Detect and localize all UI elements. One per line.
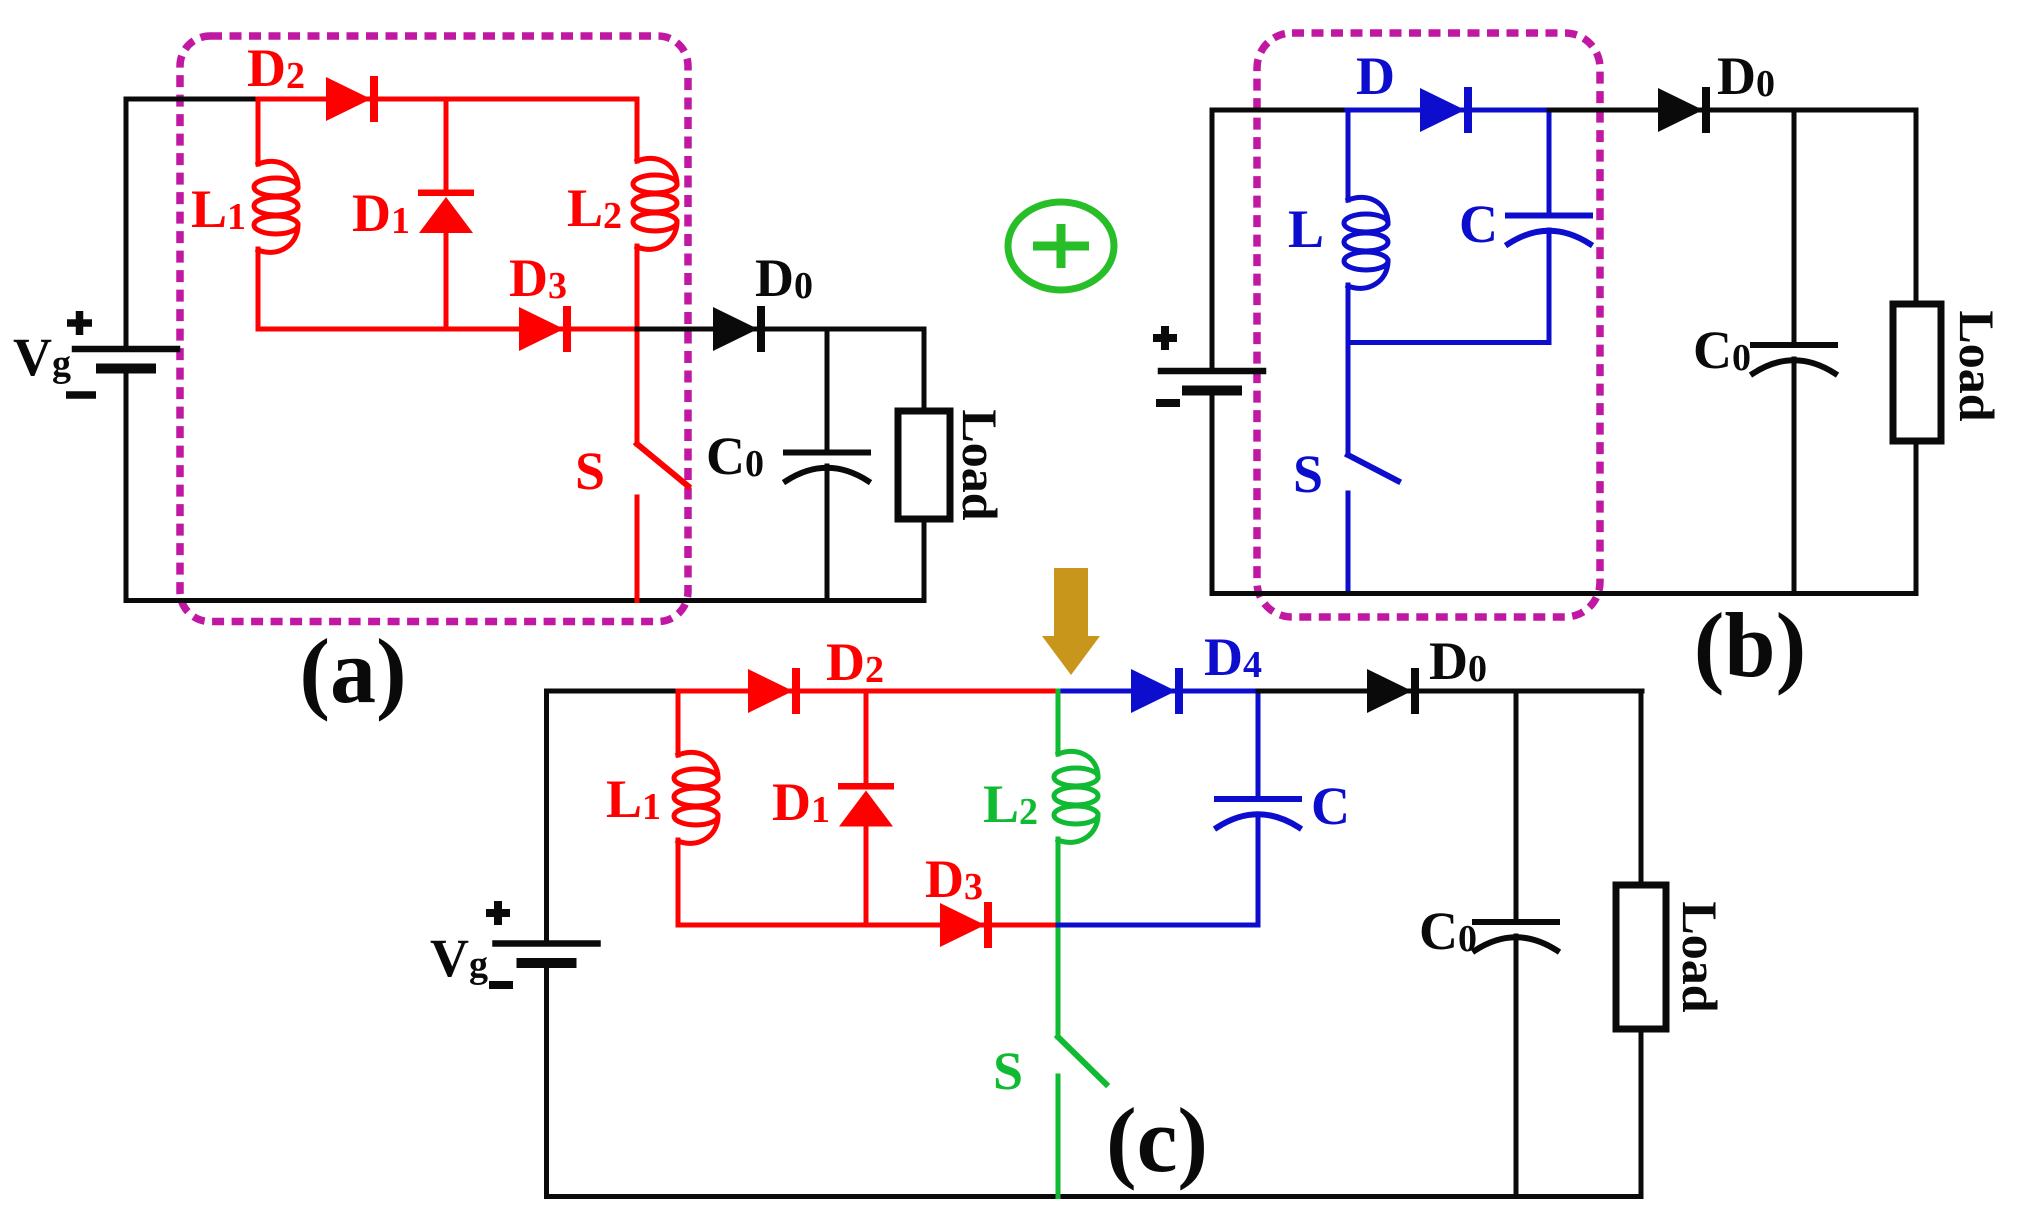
wire output black (a)	[637, 327, 924, 332]
wire lower red (c)	[678, 923, 1058, 928]
wire L1 bottom stub (a)	[256, 249, 261, 329]
wire output black (c)	[1258, 689, 1642, 694]
svg-text:D3: D3	[925, 849, 983, 909]
svg-text:C: C	[1459, 194, 1498, 254]
wire C0 top (a)	[825, 329, 830, 452]
wire top blue (c)	[1058, 689, 1258, 694]
wire L1 top stub (a)	[256, 99, 261, 164]
switch S lower (a)	[635, 497, 640, 601]
svg-text:D4: D4	[1204, 627, 1262, 687]
svg-text:(a): (a)	[299, 620, 406, 722]
wire D1 bottom (c)	[864, 826, 869, 925]
capacitor C0 (a)	[786, 453, 868, 482]
battery Vg (a)	[75, 349, 177, 369]
wire Load bottom (b)	[1914, 441, 1919, 594]
diode D1 (a)	[418, 190, 474, 234]
switch S blade (b)	[1348, 455, 1398, 481]
switch S blade (c)	[1058, 1037, 1106, 1084]
diode D0 (a)	[713, 306, 765, 352]
wire L2 top stub (c)	[1056, 691, 1061, 754]
wire C0 top (c)	[1514, 691, 1519, 922]
svg-text:Load: Load	[952, 409, 1008, 520]
wire Load bottom (c)	[1639, 1029, 1644, 1197]
switch S upper (a)	[635, 329, 640, 444]
svg-text:S: S	[1293, 444, 1323, 504]
wire top blue (b)	[1347, 108, 1549, 113]
svg-text:L1: L1	[606, 769, 661, 829]
svg-text:D2: D2	[826, 632, 884, 692]
switch S upper (b)	[1346, 343, 1351, 456]
inductor L1 (a)	[254, 161, 298, 252]
wire top red (c)	[678, 689, 1060, 694]
wire L2 bottom stub (a)	[635, 246, 640, 329]
wire left top (b)	[1212, 110, 1347, 368]
svg-text:Load: Load	[1672, 901, 1728, 1012]
diode D3 (a)	[519, 306, 571, 352]
diode D3 (c)	[940, 902, 992, 948]
capacitor C0 (b)	[1753, 345, 1835, 374]
wire Load bottom (a)	[922, 519, 927, 601]
svg-text:Vg: Vg	[13, 327, 71, 387]
svg-text:(c): (c)	[1106, 1089, 1208, 1191]
svg-text:Load: Load	[1949, 310, 2005, 421]
wire Load top (a)	[922, 329, 927, 411]
wire C top (b)	[1547, 110, 1552, 216]
resistor Load (a)	[898, 411, 950, 519]
capacitor C (b)	[1508, 216, 1590, 245]
wire C0 bottom (c)	[1514, 936, 1519, 1197]
svg-text:D1: D1	[352, 183, 410, 243]
resistor Load (c)	[1616, 885, 1666, 1029]
wire C0 bottom (b)	[1792, 359, 1797, 594]
svg-text:C0: C0	[1693, 320, 1751, 380]
wire bottom (b)	[1212, 591, 1916, 596]
resistor Load (b)	[1893, 304, 1941, 441]
wire L1 top stub (c)	[676, 691, 681, 755]
svg-text:D3: D3	[509, 248, 567, 308]
battery (b)	[1161, 371, 1263, 391]
wire mid blue (c)	[1058, 923, 1258, 928]
switch S lower (b)	[1346, 493, 1351, 594]
svg-text:D2: D2	[247, 38, 305, 98]
switch S blade (a)	[637, 444, 688, 486]
wire Vg top (c)	[547, 691, 679, 941]
inductor L1 (c)	[674, 752, 718, 843]
diode D0 (b)	[1658, 87, 1710, 133]
svg-text:D1: D1	[772, 772, 830, 832]
svg-text:L1: L1	[191, 179, 246, 239]
wire L2 bottom stub (c)	[1056, 839, 1061, 925]
enclosure dashed box (b)	[1257, 33, 1600, 617]
plus sign (b)	[1153, 326, 1177, 350]
minus sign (c)	[489, 981, 513, 989]
svg-text:D0: D0	[1429, 631, 1487, 691]
svg-text:S: S	[993, 1041, 1023, 1101]
arrow golden	[1042, 568, 1100, 675]
wire L bottom stub (b)	[1346, 285, 1351, 343]
minus sign (b)	[1156, 399, 1180, 407]
diode D0 (c)	[1367, 668, 1419, 714]
svg-text:S: S	[575, 441, 605, 501]
inductor L2 (a)	[633, 158, 677, 249]
diode D2 (c)	[748, 668, 800, 714]
enclosure dashed box (a)	[180, 36, 688, 622]
svg-text:D0: D0	[1717, 46, 1775, 106]
wire D1 top (c)	[864, 691, 869, 784]
svg-text:(b): (b)	[1694, 594, 1806, 696]
svg-text:D: D	[1356, 46, 1395, 106]
svg-text:D0: D0	[755, 248, 813, 308]
svg-text:C0: C0	[1419, 901, 1477, 961]
svg-text:L: L	[1288, 199, 1324, 259]
wire Load top (b)	[1914, 110, 1919, 304]
wire C0 top (b)	[1792, 110, 1797, 345]
wire Vg bottom (c)	[547, 965, 1642, 1197]
wire top red (a)	[258, 97, 637, 102]
plus combine symbol	[1008, 202, 1114, 290]
inductor L (b)	[1344, 197, 1388, 288]
wire Vg top to node (a)	[126, 99, 258, 346]
switch S lower (c)	[1056, 1076, 1061, 1197]
svg-text:Vg: Vg	[430, 928, 488, 988]
svg-text:C: C	[1311, 776, 1350, 836]
wire L2 top stub (a)	[635, 99, 640, 161]
switch S upper (c)	[1056, 925, 1061, 1037]
inductor L2 (c)	[1054, 751, 1098, 842]
diode D2 (a)	[326, 76, 378, 122]
capacitor C (c)	[1217, 799, 1299, 828]
capacitor C0 (c)	[1475, 922, 1557, 951]
wire C bottom (b)	[1547, 230, 1552, 343]
battery Vg (c)	[496, 944, 598, 964]
diode D (b)	[1420, 87, 1472, 133]
wire D1 top (a)	[444, 99, 449, 191]
wire C top (c)	[1256, 691, 1261, 799]
wire C0 bottom (a)	[825, 466, 830, 601]
wire L1 bottom stub (c)	[676, 840, 681, 925]
diode D4 (c)	[1131, 668, 1183, 714]
svg-text:C0: C0	[706, 426, 764, 486]
wire Load top (c)	[1639, 691, 1644, 885]
wire C bottom (c)	[1256, 814, 1261, 925]
wire D1 bottom (a)	[444, 233, 449, 329]
svg-text:L2: L2	[567, 178, 622, 238]
wire Vg bottom (a)	[126, 371, 924, 601]
svg-text:L2: L2	[983, 774, 1038, 834]
wire mid blue (b)	[1348, 340, 1549, 345]
wire left bottom (b)	[1210, 393, 1215, 594]
wire L top stub (b)	[1346, 110, 1351, 200]
diode D1 (c)	[838, 783, 894, 827]
wire lower red (a)	[258, 327, 637, 332]
plus sign (a)	[67, 311, 92, 335]
wire output black (b)	[1549, 108, 1916, 113]
plus sign (c)	[486, 901, 510, 925]
minus sign (a)	[66, 391, 96, 399]
